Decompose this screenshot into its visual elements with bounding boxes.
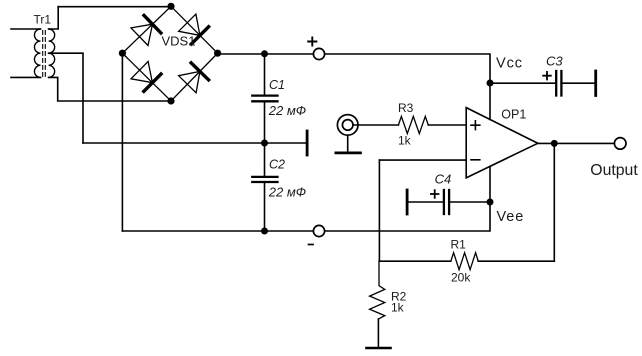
svg-text:R1: R1 xyxy=(451,238,467,252)
node Vee xyxy=(487,199,494,206)
wire Vee into op-amp xyxy=(489,166,491,202)
capacitor C2 xyxy=(264,143,266,177)
primary winding xyxy=(34,29,40,77)
transformer Tr1 xyxy=(11,29,55,77)
svg-text:Vee: Vee xyxy=(497,209,525,225)
resistor R2 xyxy=(370,261,385,319)
secondary winding xyxy=(49,29,55,77)
svg-text:C3: C3 xyxy=(546,53,563,68)
wire feedback drop xyxy=(378,160,380,261)
node bridge bottom xyxy=(167,97,174,104)
svg-text:Vcc: Vcc xyxy=(496,55,523,71)
ground input jack xyxy=(347,135,349,152)
ground bar middle rail xyxy=(306,131,309,155)
diode bottom-left of VDS1 xyxy=(131,61,152,82)
wire bridge minus drop xyxy=(121,53,123,231)
node bridge top xyxy=(167,3,174,10)
svg-text:R3: R3 xyxy=(398,101,414,115)
diode top-left of VDS1 xyxy=(131,24,153,45)
svg-text:C4: C4 xyxy=(435,172,452,187)
node bridge left xyxy=(119,50,126,57)
ground bar C3 xyxy=(594,71,597,96)
resistor R1 xyxy=(379,260,450,262)
svg-text:22 мФ: 22 мФ xyxy=(268,103,306,118)
wire secondary bottom to bridge bottom xyxy=(49,77,171,101)
op-amp OP1 xyxy=(466,108,538,178)
svg-text:OP1: OP1 xyxy=(501,108,526,122)
node C1 top xyxy=(261,50,268,57)
svg-text:1k: 1k xyxy=(391,300,405,314)
node Vcc xyxy=(487,80,494,87)
wire plus rail xyxy=(218,54,490,83)
wire middle rail xyxy=(83,142,307,144)
bridge edge top-right xyxy=(171,6,218,53)
capacitor C3 xyxy=(490,82,555,84)
wire inverting input xyxy=(379,159,466,161)
terminal + xyxy=(313,48,324,59)
node bridge right xyxy=(214,50,221,57)
terminal - xyxy=(313,225,324,236)
node output xyxy=(551,140,558,147)
svg-text:Output: Output xyxy=(590,162,638,179)
diode bottom-right of VDS1 xyxy=(179,71,200,92)
ground bar C4 xyxy=(406,190,409,214)
svg-text:20k: 20k xyxy=(451,271,471,285)
ground R2 xyxy=(367,347,391,350)
primary bottom lead xyxy=(11,76,41,78)
svg-text:C2: C2 xyxy=(269,158,285,172)
svg-text:VDS1: VDS1 xyxy=(162,34,196,49)
terminal Output xyxy=(614,138,626,150)
wire jack to R3 xyxy=(353,124,398,126)
svg-text:1k: 1k xyxy=(398,134,412,148)
svg-text:22 мФ: 22 мФ xyxy=(268,184,306,199)
wire top rail xyxy=(58,6,171,8)
wire bottom rail xyxy=(122,202,490,231)
node C1 C2 middle xyxy=(261,140,268,147)
node C2 bottom xyxy=(261,228,268,235)
svg-text:C1: C1 xyxy=(269,78,285,92)
bridge edge bottom-left xyxy=(122,53,171,101)
diode top-right of VDS1 xyxy=(179,14,200,35)
wire Vcc into op-amp xyxy=(489,83,491,120)
wire secondary top to top rail xyxy=(49,7,59,29)
wire op-amp output xyxy=(538,142,615,144)
primary top lead xyxy=(11,28,41,30)
input jack xyxy=(337,115,358,136)
core lines xyxy=(42,31,44,77)
svg-text:Tr1: Tr1 xyxy=(34,13,52,27)
bridge edge top-left xyxy=(122,6,171,53)
wire output feedback drop xyxy=(553,143,555,261)
wire secondary center tap xyxy=(49,53,83,143)
bridge edge bottom-right xyxy=(171,53,218,101)
diode bridge VDS1 xyxy=(122,6,217,101)
capacitor C1 xyxy=(264,54,266,96)
resistor R3 xyxy=(398,116,428,133)
